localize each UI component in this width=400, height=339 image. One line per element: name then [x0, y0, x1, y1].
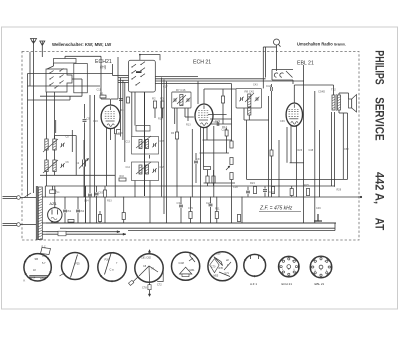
socket 2 wire — [71, 255, 78, 278]
tube V1 ECH21 (H) — [101, 105, 120, 129]
wire vert x226.6 — [226, 128, 228, 153]
svg-text:C27: C27 — [206, 201, 212, 205]
trimmer C15 — [154, 143, 156, 146]
socket view 5 circle — [172, 252, 200, 280]
wire vert x149.5 — [149, 155, 151, 159]
svg-text:P26: P26 — [105, 258, 110, 262]
wire AVC line y197 — [42, 196, 361, 198]
wire antenna A1 down — [33, 52, 35, 193]
band switch S1 contacts — [50, 71, 54, 74]
svg-text:R1: R1 — [100, 92, 104, 96]
svg-text:EBL 21: EBL 21 — [297, 61, 314, 67]
wire line y230.5 — [128, 230, 335, 232]
svg-text:C52: C52 — [344, 148, 349, 151]
socket 5 triangle — [180, 267, 192, 274]
resistor R21 — [253, 187, 256, 194]
svg-text:8: 8 — [292, 261, 293, 263]
socket 4 left stub — [131, 277, 139, 284]
resistor R20b — [212, 176, 215, 183]
socket 5 base box — [182, 274, 189, 277]
socket 1 ticks — [24, 261, 26, 262]
svg-text:C78: C78 — [142, 287, 147, 290]
wire vert x246.5 — [246, 120, 248, 179]
wire vert x192.3 — [191, 129, 193, 197]
svg-text:C62: C62 — [79, 209, 85, 213]
wire vert x55.7 — [55, 120, 57, 133]
capacitor C45 — [263, 190, 267, 192]
IF T2 lower coil — [248, 108, 251, 115]
wire C2 up — [83, 140, 85, 160]
wire S1 feed2 — [72, 78, 82, 80]
wire pot top — [231, 84, 233, 141]
wire bus y86 — [28, 85, 101, 87]
wire antenna bus y73.5 — [28, 73, 113, 75]
svg-text:C14: C14 — [126, 166, 131, 169]
wire grid bus y83.4 — [155, 82, 231, 84]
resistor R31 — [103, 190, 106, 197]
svg-text:P C: P C — [42, 245, 46, 249]
wire AZ1 output — [54, 186, 56, 208]
resistor R6 — [175, 132, 178, 139]
svg-text:R23: R23 — [250, 181, 255, 185]
wire osc coils down — [134, 181, 136, 198]
wire x268.6 down — [268, 96, 270, 197]
wire y153 segment — [200, 152, 230, 154]
wire horiz y124 — [211, 123, 232, 125]
antenna coil L4 — [53, 160, 56, 172]
trimmer C4 — [62, 164, 64, 167]
resistor R at x190 — [189, 212, 192, 219]
resistor R16 — [119, 178, 126, 181]
resistor R23 grid — [270, 150, 273, 156]
speaker LS — [349, 99, 352, 108]
wire V2 anode up — [203, 89, 205, 104]
IF T1 coil — [180, 95, 183, 106]
svg-text:K: K — [24, 279, 26, 283]
wire vert x287 — [286, 127, 288, 163]
resistor R30 — [68, 220, 74, 223]
svg-text:C71: C71 — [225, 272, 230, 275]
svg-text:PHILIPS: PHILIPS — [373, 50, 387, 84]
svg-text:SB: SB — [35, 257, 39, 261]
svg-text:Z.F. = 475 kHz: Z.F. = 475 kHz — [259, 206, 293, 212]
volume pot chain R18 — [230, 141, 233, 148]
svg-text:C48: C48 — [309, 149, 314, 152]
capacitor C47 — [306, 189, 309, 196]
svg-text:C15: C15 — [160, 140, 165, 143]
svg-text:C26: C26 — [214, 121, 219, 124]
socket 7 pins — [250, 255, 252, 259]
svg-text:C18: C18 — [160, 166, 165, 169]
oscillator switch S2 contacts — [132, 64, 136, 67]
resistor R10 — [221, 96, 224, 103]
band switch S1 wafer outline — [46, 69, 72, 92]
wire S1 to grid top — [64, 56, 66, 58]
socket 5 top wire — [189, 252, 191, 256]
IF transformer T2 box — [236, 88, 262, 108]
svg-text:Umschalten Radio Gramm.: Umschalten Radio Gramm. — [297, 42, 346, 47]
wire antenna A2 down — [41, 53, 43, 58]
power box left edge — [44, 186, 46, 197]
volume pot chain R19 — [230, 158, 233, 165]
svg-text:mA: mA — [40, 278, 44, 281]
wire x314.8 — [314, 91, 316, 223]
svg-text:T52: T52 — [331, 88, 336, 92]
tube V3 EBL21 — [286, 103, 302, 126]
svg-text:C25: C25 — [188, 206, 193, 210]
wire osc bus out 3 — [155, 80, 303, 82]
socket 2 tick — [63, 273, 65, 274]
IF T1 trimmer left — [174, 98, 176, 101]
S2 top stub loop — [140, 55, 160, 61]
socket view 2 circle — [62, 253, 89, 280]
svg-text:C81 C82: C81 C82 — [141, 257, 151, 260]
svg-text:M55: M55 — [214, 275, 219, 278]
wire avc vert x90 — [89, 95, 91, 193]
wire coil top links — [46, 92, 48, 139]
socket view 7 circle AZ1 — [244, 254, 266, 276]
wire gram verticals — [262, 47, 264, 88]
svg-text:4: 4 — [288, 274, 289, 276]
capacitor C8 — [83, 120, 87, 122]
gramophone pickup Q symbol — [274, 39, 280, 45]
ZF pointer corner — [314, 214, 318, 221]
svg-text:1: 1 — [316, 261, 317, 263]
wire avc vert x94.4 — [93, 95, 95, 197]
mains switch lever — [24, 193, 31, 198]
wire coil mid — [46, 150, 48, 160]
tuning capacitor C2 — [83, 160, 86, 167]
svg-text:ECH 21: ECH 21 — [282, 282, 293, 286]
gram switch contacts — [274, 73, 278, 77]
wire V1 pins down — [106, 128, 108, 186]
wire triple vert a — [161, 78, 163, 197]
svg-text:C33: C33 — [196, 158, 201, 161]
wire osc bus in 3 — [118, 79, 129, 81]
mains terminal P2 — [17, 223, 21, 227]
component under tube V1 — [117, 130, 121, 135]
capacitor C44 — [271, 87, 273, 91]
socket view 1 circle — [24, 254, 51, 281]
capacitor C33 — [194, 161, 198, 163]
svg-text:442 A,: 442 A, — [373, 172, 387, 204]
svg-text:C39: C39 — [280, 120, 285, 123]
wire pot bottom — [231, 180, 233, 224]
antenna coil top loop — [54, 136, 56, 140]
socket 6 kite — [214, 257, 223, 266]
svg-text:C49: C49 — [316, 207, 321, 210]
svg-text:C20: C20 — [118, 131, 123, 135]
svg-text:C63: C63 — [98, 191, 104, 195]
wire triple vert c — [166, 82, 168, 224]
svg-text:C54D: C54D — [318, 90, 325, 94]
svg-text:R7 C16: R7 C16 — [176, 88, 186, 92]
wire vert x279 — [278, 140, 280, 197]
wire vert x343.3 — [342, 113, 344, 179]
wire vert x188 — [187, 108, 189, 121]
capacitor C34 — [179, 205, 183, 207]
wire osc bus in 2 — [118, 77, 129, 79]
svg-text:R3: R3 — [160, 97, 164, 101]
wire x271.5 down — [271, 96, 273, 197]
svg-text:C13: C13 — [126, 141, 131, 144]
socket 3 wire — [105, 254, 112, 275]
IF T2 coil — [248, 94, 251, 107]
svg-text:8: 8 — [325, 261, 326, 263]
wire C2 down — [83, 167, 85, 198]
socket 1 chord lines — [29, 275, 48, 277]
svg-text:C11: C11 — [97, 89, 102, 92]
svg-text:C4M: C4M — [179, 262, 184, 265]
svg-text:R13: R13 — [186, 124, 191, 127]
resistor R19b — [206, 176, 209, 183]
wire vert x319.5 — [319, 130, 321, 197]
output transformer T52 — [332, 95, 335, 110]
svg-text:C16: C16 — [93, 119, 98, 123]
svg-text:4: 4 — [320, 275, 321, 277]
volume pot chain R20 — [230, 173, 233, 180]
wire T2 down — [248, 115, 250, 120]
wire x118 riser — [117, 57, 119, 99]
socket 4 bottom stub — [149, 282, 151, 294]
trimmer C18 — [154, 169, 156, 172]
antenna coil L2 — [53, 139, 56, 150]
socket 4 inner wires — [139, 266, 158, 276]
svg-text:6: 6 — [294, 269, 295, 271]
wire T1 down left — [176, 108, 178, 197]
trimmer C3 — [62, 143, 64, 146]
wire x242 — [241, 197, 243, 224]
svg-text:C44: C44 — [266, 84, 272, 88]
oscillator coil L7 — [139, 165, 142, 174]
capacitor C27 — [209, 204, 213, 206]
capacitor C22 — [217, 122, 219, 126]
svg-text:R26: R26 — [298, 149, 303, 152]
capacitor C63 — [95, 193, 99, 195]
wire y183 segment — [204, 182, 236, 184]
resistor R12 — [225, 130, 228, 136]
wire osc bus in 1 — [113, 75, 129, 77]
wire B+ line y186 — [45, 185, 335, 187]
svg-text:R35: R35 — [219, 267, 224, 270]
wire S2 verticals — [131, 92, 133, 137]
oscillator switch S2 box — [129, 60, 156, 92]
svg-text:ECH 21: ECH 21 — [193, 60, 211, 66]
resistor R27 — [290, 189, 293, 196]
svg-text:C70: C70 — [211, 266, 216, 269]
fuse F1 — [50, 190, 56, 194]
pot wiper arrow — [226, 166, 230, 170]
wire anode feed y89 — [204, 88, 236, 90]
S1 top loop — [54, 59, 77, 64]
wire V2 pin down — [203, 128, 205, 167]
IF T2 trimmer right — [256, 97, 258, 100]
wire y140 segment — [203, 139, 232, 141]
socket view 9 EBL21 base — [310, 256, 332, 278]
svg-text:Wellenschalter: KW; MW; LW: Wellenschalter: KW; MW; LW — [52, 42, 112, 47]
svg-text:R2: R2 — [152, 97, 156, 101]
svg-text:3: 3 — [282, 269, 283, 271]
svg-text:C a: C a — [110, 268, 115, 272]
oscillator coil L6 — [146, 140, 149, 149]
antenna coil L1 — [45, 139, 48, 150]
svg-text:MZ1: MZ1 — [190, 269, 196, 272]
svg-text:R29: R29 — [337, 189, 342, 192]
svg-text:R33: R33 — [107, 200, 112, 203]
wire pot x216.8 — [215, 212, 218, 219]
svg-text:C30: C30 — [233, 185, 238, 189]
svg-text:C17: C17 — [163, 86, 168, 89]
svg-text:R25: R25 — [304, 183, 309, 187]
svg-text:SERVICE: SERVICE — [373, 97, 387, 140]
svg-text:C28: C28 — [222, 129, 227, 132]
socket view 4 circle — [135, 254, 163, 282]
wire vert x76.2 — [75, 136, 77, 176]
socket 4 top stub — [149, 250, 151, 254]
svg-text:C64: C64 — [84, 200, 89, 203]
wire vert x331.4 — [330, 112, 332, 186]
socket 1 top-right box — [41, 248, 51, 255]
IF T1 trimmer right — [187, 98, 189, 101]
svg-text:P6 K4: P6 K4 — [29, 278, 36, 280]
resistor R22 — [237, 215, 240, 222]
wire R27 stub — [291, 186, 293, 189]
wire secondary top — [338, 93, 340, 95]
resistor R17 — [204, 167, 211, 170]
svg-text:C61: C61 — [66, 209, 72, 213]
rectifier tube AZ1 — [48, 208, 62, 222]
svg-text:AT: AT — [373, 218, 387, 231]
wire osc bus out 2 — [155, 78, 265, 80]
tube V2 ECH21 — [195, 104, 213, 128]
wire secondary bottom — [338, 110, 340, 113]
wire V2 diode out — [208, 114, 227, 116]
oscillator coil L5 — [139, 140, 142, 149]
resistor R2 — [153, 101, 156, 108]
svg-text:3: 3 — [315, 270, 316, 272]
wire vert x72.3 — [71, 130, 73, 152]
svg-text:R14: R14 — [158, 118, 163, 121]
wire vert x174.7 — [174, 108, 176, 124]
svg-text:C46: C46 — [269, 190, 274, 194]
wire triple vert b — [163, 80, 165, 215]
socket 4 right bracket — [157, 270, 163, 282]
resistor R24 — [271, 187, 274, 194]
mains terminal P1 — [17, 196, 21, 200]
wire transformer taps — [42, 222, 46, 224]
antenna A1 symbol — [31, 39, 37, 53]
wire S1 bottom h1 — [40, 95, 82, 97]
S1 right loop box — [74, 64, 88, 93]
svg-text:1: 1 — [284, 261, 285, 263]
coil arrows — [43, 139, 58, 152]
svg-text:R11: R11 — [215, 207, 220, 211]
wire x334.4 — [333, 112, 335, 187]
wire osc bus in 4 — [118, 82, 129, 84]
mains wires — [3, 196, 17, 198]
svg-text:A Z 1: A Z 1 — [250, 282, 257, 286]
wire x303.6 — [303, 65, 305, 223]
capacitor C62 — [76, 210, 80, 212]
svg-text:P25: P25 — [75, 262, 80, 266]
wire left vert x30 — [29, 52, 31, 86]
wire osc bus out 1 — [155, 76, 198, 78]
chassis dashed border — [22, 52, 359, 241]
wire ground bus y223 — [46, 222, 336, 224]
socket view 6 circle — [208, 252, 237, 281]
socket view 8 ECH21 base — [279, 256, 300, 277]
IF coil arrows — [177, 95, 186, 104]
svg-text:C69: C69 — [216, 253, 221, 256]
gram switch bottom rail — [272, 79, 293, 81]
wire V3 anode up — [293, 85, 295, 103]
dial lamp block — [58, 231, 66, 236]
wire gram top link — [263, 46, 276, 48]
wire left vert x27.5 — [27, 74, 29, 197]
wire corner x335 — [334, 223, 336, 231]
wire vert x115.2 — [114, 133, 116, 197]
svg-text:6: 6 — [326, 270, 327, 272]
wire V1 anode up — [110, 99, 112, 105]
capacitor C29 — [246, 191, 250, 193]
dial lamp wires — [46, 231, 120, 233]
svg-text:R16: R16 — [120, 175, 125, 178]
wire x198 vert — [197, 82, 199, 105]
capacitor C61 — [63, 210, 67, 212]
IF transformer T1 box — [172, 92, 191, 108]
socket 6 wires — [219, 272, 230, 277]
oscillator coil L8 — [146, 165, 149, 174]
svg-text:C72: C72 — [157, 284, 162, 287]
wire vert x213.8 — [213, 126, 215, 197]
power box right edge — [85, 186, 87, 223]
capacitor R5 pair — [119, 99, 123, 101]
svg-text:C43: C43 — [253, 84, 258, 87]
wire V2 cathode down — [200, 127, 202, 223]
socket 3 ticks — [111, 280, 113, 282]
oscillator loop A — [132, 137, 159, 155]
wire horiz y120 — [244, 119, 269, 121]
svg-text:C34: C34 — [177, 201, 183, 205]
osc main vertical — [144, 92, 146, 196]
resistor R3 — [161, 101, 164, 108]
IF T2 trimmer left — [241, 97, 243, 100]
wire S1 bottom h2 — [28, 99, 71, 101]
wire T1 down right — [184, 108, 186, 117]
svg-text:AZ1: AZ1 — [49, 201, 57, 206]
wire feedback y179.4 — [247, 178, 348, 180]
power transformer T50 core — [35, 186, 37, 240]
wire line y228.2 — [60, 227, 335, 229]
svg-text:EBL 21: EBL 21 — [315, 282, 325, 286]
oscillator loop B — [132, 162, 159, 181]
resistor R1 — [100, 95, 106, 98]
power transformer T50 winding — [38, 187, 42, 240]
resistor R32 — [98, 215, 101, 222]
resistor R at x123.7 — [122, 213, 125, 220]
padder capacitor box — [136, 126, 150, 132]
svg-text:R8 C42: R8 C42 — [245, 90, 255, 94]
socket view 3 circle — [98, 253, 126, 281]
antenna A2 symbol — [40, 41, 45, 53]
wire y175.3 — [40, 174, 115, 176]
wire R2 R3 down — [154, 108, 156, 118]
wire V3 pins down — [290, 126, 292, 163]
wire coil bottoms — [46, 172, 48, 187]
wire segment y162.8 — [290, 162, 304, 164]
antenna coil L3 — [45, 160, 48, 172]
